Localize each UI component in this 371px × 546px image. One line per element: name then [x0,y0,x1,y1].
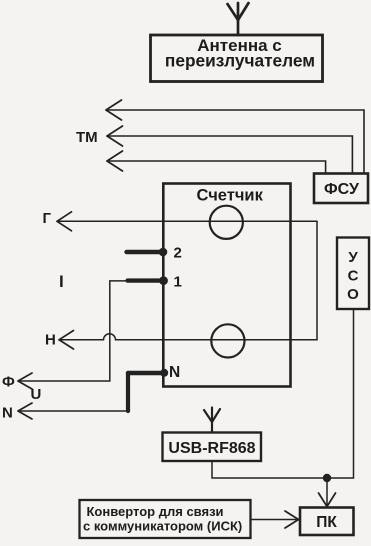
svg-text:USB-RF868: USB-RF868 [168,440,255,457]
coil W1 (voltage coil circle) [210,206,243,239]
svg-text:N: N [169,364,180,381]
svg-text:Г: Г [43,210,52,227]
svg-text:1: 1 [174,273,182,290]
wire USB-RF868 to junction [212,461,327,478]
svg-text:У: У [348,249,358,266]
block Счетчик (meter) [163,184,290,387]
wire TM2 [107,126,352,172]
wire Г (generator line through coil 1) [57,212,317,231]
svg-text:ПК: ПК [316,514,337,531]
svg-text:С: С [348,268,359,285]
wire junction to ПК (arrow down) [319,478,336,507]
terminal N (bold neutral lead) [128,364,180,411]
svg-text:переизлучателем: переизлучателем [165,51,315,71]
svg-text:Конвертор для связи: Конвертор для связи [87,504,224,519]
block USB-RF868 [163,433,262,462]
svg-text:с коммуникатором (ИСК): с коммуникатором (ИСК) [83,519,242,534]
wire Конвертор to ПК (arrow right) [251,511,299,528]
svg-text:О: О [347,286,359,303]
svg-text:ФСУ: ФСУ [324,181,360,198]
coil W2 (current coil circle) [211,324,244,357]
wire TM3 [107,151,326,172]
svg-text:Ф: Ф [2,374,15,391]
terminal 2 (bold current lead) [127,245,182,262]
svg-text:N: N [2,405,13,422]
wire Н (through coil 2, hop over Ф wire) [59,331,317,350]
svg-text:Счетчик: Счетчик [197,187,264,205]
antenna A1 (top) [228,3,249,35]
wire N (neutral to N arrow) [18,403,128,419]
block Конвертор (ИСК) [80,500,251,538]
wire УСО to junction [327,309,354,478]
svg-text:U: U [31,386,42,403]
block ПК [300,508,354,536]
block ФСУ U3 [314,174,368,204]
svg-text:Н: Н [45,332,56,349]
wire TM1 [106,100,364,172]
svg-text:I: I [59,272,64,291]
block: Антенна с переизлучателем [151,35,323,82]
wire Ф (phase: from terminal 1 down to Ф arrow) [18,281,128,389]
block УСО U2 [337,238,369,310]
svg-text:ТМ: ТМ [76,129,98,146]
node junction [323,474,331,482]
svg-text:2: 2 [174,245,182,262]
wire meter loop (right side wrap) [316,221,318,339]
antenna A2 (USB-RF868) [204,408,220,433]
terminal 1 (bold current lead) [128,273,182,290]
